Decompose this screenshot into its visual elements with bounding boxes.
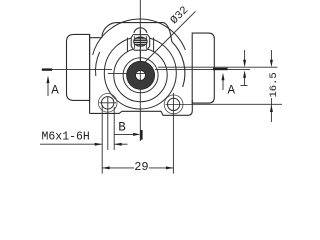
bleeder boss right side (153, 38, 155, 53)
left hole crosshair (100, 102, 117, 104)
bleeder hex nut (131, 28, 150, 51)
right hole crosshair (166, 103, 193, 105)
M6 leader line (40, 143, 102, 145)
right hole center extension (172, 93, 174, 174)
dim A bottom tick (241, 85, 248, 87)
hub counterbore circle (123, 58, 158, 93)
vertical centerline (139, 0, 141, 141)
upper horizontal line right (158, 66, 278, 68)
right ear circle (164, 95, 183, 114)
base outline (90, 100, 193, 115)
left ear circle (98, 94, 117, 113)
svg-text:A: A (51, 83, 59, 97)
boot cap (67, 34, 90, 100)
right block (192, 33, 214, 103)
bleeder hex chamfer line right (145, 36, 147, 49)
neck top edge (90, 37, 102, 39)
bleeder dome knurl (133, 37, 148, 46)
mid circle (104, 37, 176, 109)
right section tick (213, 68, 228, 70)
M6 hole edge extension right (113, 107, 115, 150)
body circle r49 arc (93, 19, 186, 55)
svg-text:29: 29 (134, 160, 148, 174)
body top outline (102, 23, 172, 42)
right mounting hole (168, 98, 180, 110)
body left face line (89, 34, 91, 113)
left section arrow (47, 81, 49, 96)
hub crosshair horizontal (108, 72, 155, 74)
flange circle r44.6 left arc (96, 52, 100, 76)
M6 hole edge extension left (101, 105, 103, 174)
flange circle r44.6 right arc (172, 42, 185, 87)
bleeder hex chamfer line left (133, 36, 135, 49)
dim 29 line left (102, 167, 134, 169)
dim A arrows (right offset) (244, 50, 246, 61)
bottom extension line (hole axis) (192, 103, 282, 105)
section A-A line ticks (42, 68, 228, 71)
dim 16.5 line crossing (270, 98, 272, 107)
dim B tick (140, 130, 142, 140)
dim 16.5 bottom arrow (270, 110, 272, 122)
left hole center extension (107, 97, 109, 151)
dim 29 line right (149, 167, 173, 169)
horizontal centerline right segment (155, 69, 250, 71)
svg-text:M6x1-6H: M6x1-6H (42, 131, 90, 144)
left mounting hole (102, 97, 114, 109)
centerline over bleeder (139, 30, 141, 62)
dim 16.5 top arrow (270, 50, 272, 61)
svg-text:A: A (228, 84, 236, 98)
svg-text:16.5: 16.5 (268, 72, 280, 97)
hub ring (127, 61, 155, 89)
svg-text:B: B (118, 121, 126, 135)
dim B arrow (114, 133, 134, 135)
left section tick (42, 68, 52, 70)
dia32 leader (145, 11, 196, 62)
bleeder boss left side (126, 38, 128, 53)
bleeder boss arc (114, 48, 167, 101)
right section arrow (222, 78, 224, 90)
M6 right arrow (114, 143, 127, 145)
horizontal centerline left segment (42, 69, 112, 71)
